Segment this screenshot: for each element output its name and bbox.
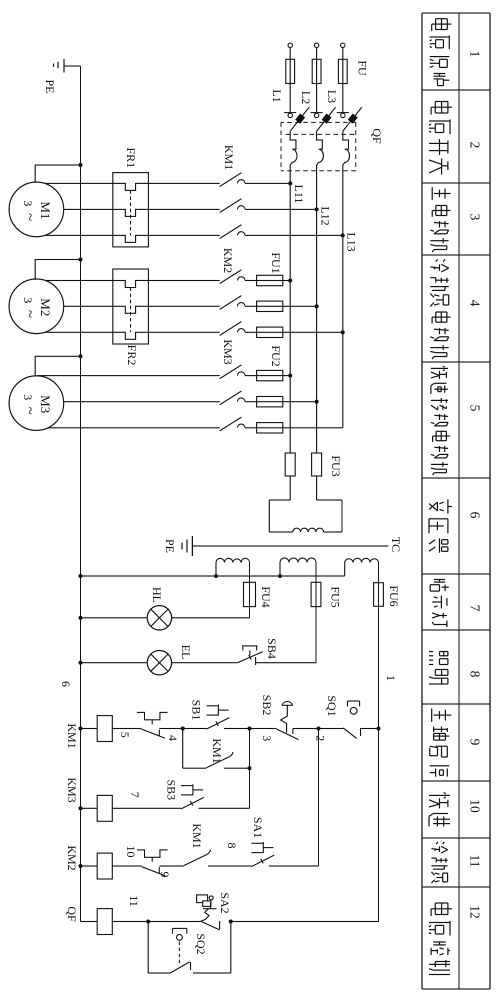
svg-text:PE: PE — [163, 539, 177, 553]
svg-text:7: 7 — [128, 792, 142, 798]
svg-text:HL: HL — [150, 587, 164, 603]
svg-text:10: 10 — [468, 799, 483, 813]
svg-text:10: 10 — [124, 846, 138, 858]
svg-text:1: 1 — [384, 675, 398, 681]
svg-text:FU1: FU1 — [269, 252, 283, 273]
svg-text:SA2: SA2 — [218, 892, 232, 913]
svg-text:QF: QF — [65, 906, 79, 922]
svg-text:SB4: SB4 — [265, 638, 279, 659]
svg-text:L11: L11 — [292, 185, 306, 204]
svg-text:FU5: FU5 — [329, 586, 343, 607]
svg-text:9: 9 — [468, 739, 483, 746]
svg-text:SQ2: SQ2 — [194, 933, 208, 954]
svg-text:5: 5 — [118, 732, 132, 738]
svg-text:~: ~ — [21, 213, 37, 221]
svg-text:KM2: KM2 — [65, 845, 79, 870]
svg-text:M1: M1 — [38, 201, 53, 219]
svg-text:FU4: FU4 — [259, 586, 273, 607]
svg-text:KM3: KM3 — [65, 777, 79, 802]
svg-text:KM1: KM1 — [65, 723, 79, 748]
svg-text:M2: M2 — [38, 298, 53, 316]
svg-text:SQ1: SQ1 — [325, 695, 339, 716]
svg-text:3: 3 — [21, 200, 35, 206]
svg-text:FU3: FU3 — [329, 455, 343, 476]
svg-text:2: 2 — [468, 142, 483, 149]
svg-text:~: ~ — [21, 310, 37, 318]
svg-text:M3: M3 — [38, 395, 53, 413]
svg-text:11: 11 — [127, 895, 141, 907]
svg-text:6: 6 — [468, 512, 483, 519]
svg-text:3: 3 — [468, 214, 483, 221]
svg-text:9: 9 — [158, 872, 172, 878]
svg-text:FU2: FU2 — [269, 345, 283, 366]
svg-text:SB3: SB3 — [165, 779, 179, 800]
svg-text:3: 3 — [21, 394, 35, 400]
svg-text:KM1: KM1 — [222, 145, 236, 170]
svg-text:1: 1 — [468, 51, 483, 58]
svg-text:KM1: KM1 — [190, 823, 204, 848]
svg-text:8: 8 — [225, 843, 239, 849]
svg-text:4: 4 — [166, 735, 180, 741]
svg-text:L12: L12 — [319, 206, 333, 225]
svg-text:FR1: FR1 — [124, 147, 138, 168]
svg-text:4: 4 — [468, 300, 483, 307]
svg-text:KM1: KM1 — [210, 738, 224, 763]
svg-text:L1: L1 — [270, 89, 284, 102]
svg-text:6: 6 — [59, 681, 73, 687]
svg-text:11: 11 — [468, 855, 483, 868]
svg-text:SB2: SB2 — [260, 695, 274, 716]
svg-text:SB1: SB1 — [190, 700, 204, 721]
svg-text:3: 3 — [21, 297, 35, 303]
svg-text:8: 8 — [468, 671, 483, 678]
svg-text:7: 7 — [468, 605, 483, 612]
svg-text:12: 12 — [468, 905, 483, 919]
svg-text:5: 5 — [468, 405, 483, 412]
svg-text:PE: PE — [43, 79, 57, 93]
svg-text:TC: TC — [389, 537, 403, 552]
svg-text:QF: QF — [370, 128, 384, 144]
svg-text:FR2: FR2 — [125, 345, 139, 366]
svg-text:KM3: KM3 — [221, 339, 235, 364]
svg-text:FU: FU — [356, 60, 370, 76]
svg-text:~: ~ — [21, 407, 37, 415]
svg-text:L2: L2 — [299, 91, 313, 104]
svg-text:EL: EL — [179, 645, 193, 660]
svg-text:SA1: SA1 — [251, 817, 265, 838]
svg-text:L3: L3 — [325, 90, 339, 103]
svg-text:2: 2 — [314, 735, 328, 741]
svg-text:L13: L13 — [345, 232, 359, 251]
svg-text:3: 3 — [260, 735, 274, 741]
svg-text:FU6: FU6 — [387, 585, 401, 606]
svg-text:KM2: KM2 — [221, 248, 235, 273]
